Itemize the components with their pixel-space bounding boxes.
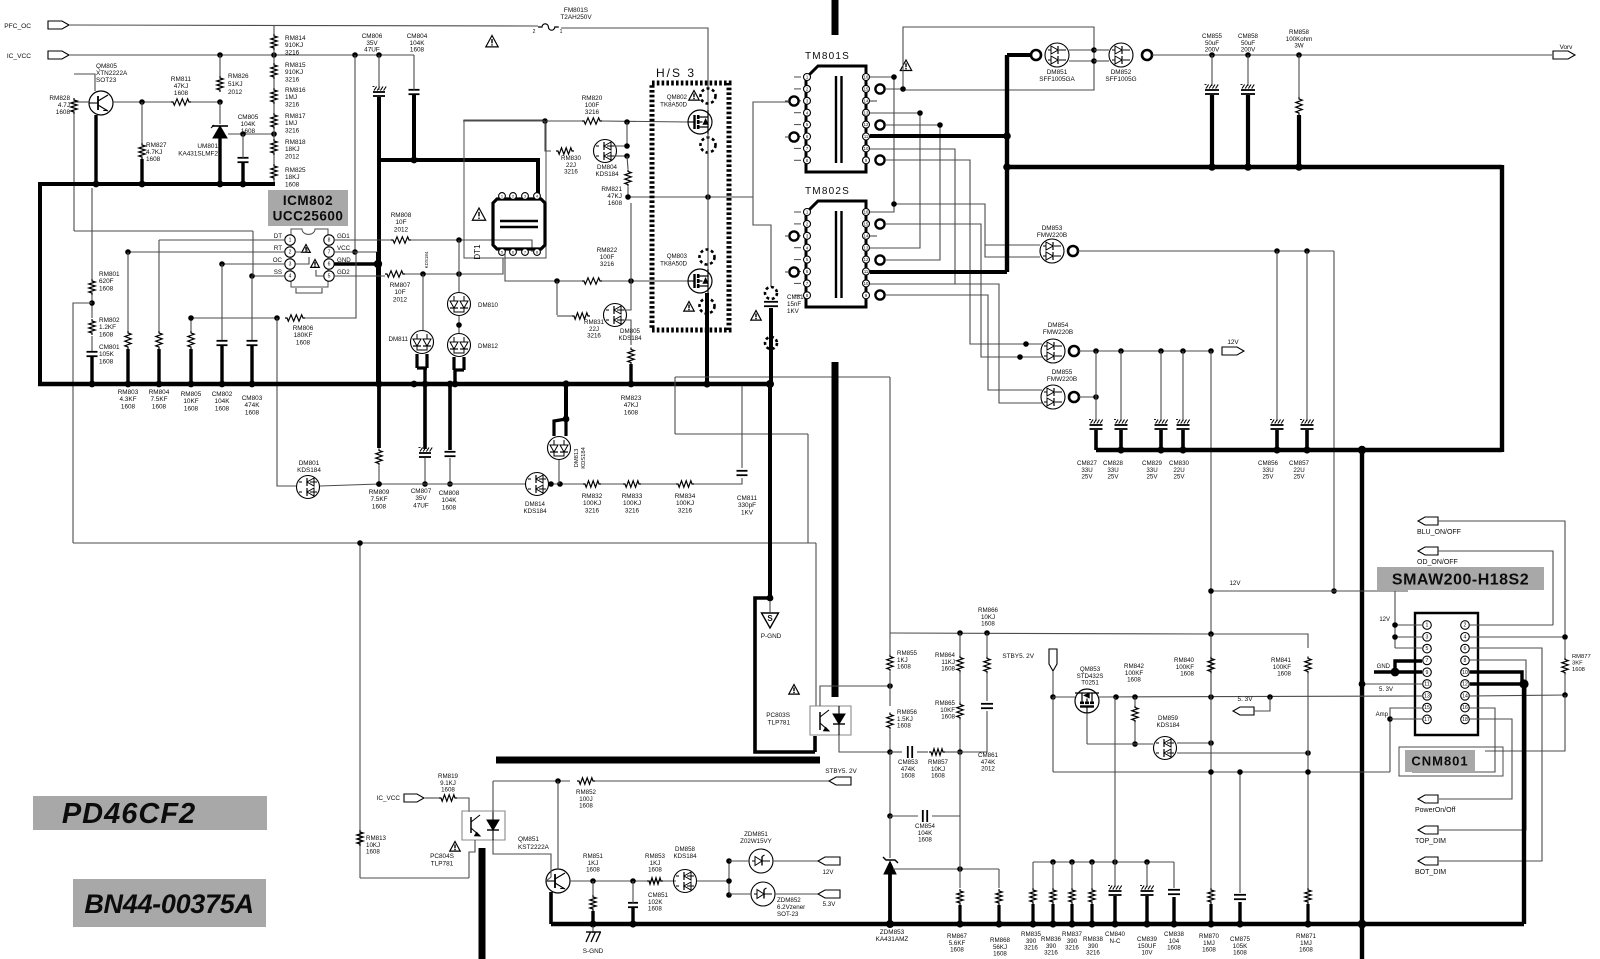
wire DM805 out: [624, 281, 631, 310]
pin CNM801 13: [1423, 692, 1432, 701]
terminal ring DM851 in: [1031, 50, 1041, 60]
thick drop x1362: [1360, 450, 1364, 959]
wire fb drop x890: [889, 377, 891, 633]
wire pin15b to DM854: [885, 224, 1042, 357]
svg-text:KA431SLMF2: KA431SLMF2: [178, 150, 218, 157]
svg-text:FMW220B: FMW220B: [1043, 329, 1073, 336]
pin TM802S 12: [863, 256, 870, 263]
svg-text:3216: 3216: [1044, 950, 1058, 957]
diode DM855: [1041, 385, 1065, 409]
svg-text:1608: 1608: [121, 403, 136, 410]
svg-text:SOT-23: SOT-23: [777, 911, 799, 918]
wire CM851b top: [632, 881, 634, 903]
svg-text:16: 16: [864, 210, 869, 215]
pin CNM801 1: [1423, 621, 1432, 630]
svg-text:8: 8: [328, 238, 331, 244]
svg-text:RM816: RM816: [285, 87, 306, 94]
wire RM832-RM833: [601, 483, 623, 485]
svg-text:10: 10: [864, 281, 869, 286]
wire 12V rail drop x1211: [1210, 351, 1212, 697]
pin 1 DT: [285, 235, 295, 245]
transistor QM805: [89, 91, 113, 115]
svg-text:1608: 1608: [648, 867, 662, 874]
terminal ring TM802S pin6: [789, 267, 798, 276]
svg-text:14: 14: [864, 233, 869, 238]
svg-text:910KJ: 910KJ: [285, 42, 303, 49]
wire cnm pin13 53: [1416, 695, 1423, 697]
svg-text:CM811: CM811: [737, 495, 758, 502]
pin CNM801 16: [1461, 703, 1470, 712]
svg-text:1: 1: [1426, 623, 1429, 629]
svg-text:51KJ: 51KJ: [228, 81, 243, 88]
svg-text:1608: 1608: [1572, 667, 1585, 673]
svg-text:5. 3V: 5. 3V: [1238, 696, 1254, 703]
capacitor CM875: [1239, 772, 1241, 893]
wire RM827: [141, 102, 143, 143]
wire DM854 out rail: [1079, 350, 1211, 352]
node junction x274 y55: [271, 52, 277, 58]
wire CM861 foot: [960, 711, 987, 752]
resistor RM814: [271, 34, 277, 50]
svg-text:3216: 3216: [1086, 950, 1100, 957]
resistor RM832: [583, 481, 601, 487]
svg-text:TM802S: TM802S: [805, 186, 850, 197]
svg-text:DM851: DM851: [1047, 69, 1068, 76]
wire QM802 source to QM803 drain: [707, 134, 709, 269]
svg-text:GD2: GD2: [337, 269, 350, 276]
svg-text:15: 15: [864, 222, 869, 227]
svg-text:25V: 25V: [1081, 474, 1093, 481]
svg-text:T0251: T0251: [1081, 680, 1099, 687]
svg-text:1608: 1608: [56, 109, 71, 116]
capacitor CM858: [1245, 52, 1251, 58]
svg-text:1608: 1608: [950, 947, 964, 954]
wire ZDM853 ref row: [893, 868, 999, 870]
svg-text:200V: 200V: [1241, 47, 1256, 54]
svg-text:8: 8: [1464, 658, 1467, 664]
thick RM838 foot: [1090, 904, 1093, 924]
resistor RM825: [271, 164, 277, 180]
wire SS riser: [252, 231, 254, 276]
wire DM814 out: [549, 483, 583, 485]
capacitor CM855: [1209, 52, 1215, 58]
svg-text:1608: 1608: [648, 906, 662, 913]
resistor RM841: [1305, 657, 1311, 674]
svg-text:CM803: CM803: [242, 395, 263, 402]
wire RM834 to CM811: [694, 478, 742, 484]
svg-text:KST2222A: KST2222A: [518, 844, 550, 851]
diode DM813: [548, 437, 571, 460]
pin CNM801 5: [1423, 644, 1432, 653]
warning triangle QM803: [684, 302, 694, 312]
svg-text:TLP781: TLP781: [431, 860, 454, 867]
resistor RM815: [271, 63, 277, 79]
resistor RM866: [984, 657, 990, 674]
wire QM851 base: [546, 869, 551, 881]
wire RM826 to UM801: [219, 102, 221, 124]
wire pin2 RT net: [128, 251, 285, 253]
wire TM802 pin6 stub: [785, 271, 789, 273]
wire RM840: [1210, 634, 1212, 657]
resistor RM838: [1091, 862, 1093, 888]
wire feedback left: [73, 303, 92, 543]
wire TM801 pin6 stub: [785, 136, 789, 138]
svg-text:3216: 3216: [1065, 945, 1079, 952]
svg-text:200V: 200V: [1205, 47, 1220, 54]
pin TM801S 10: [863, 145, 870, 152]
zener ZDM852: [751, 882, 775, 906]
svg-text:KA431AMZ: KA431AMZ: [876, 936, 909, 943]
svg-text:1608: 1608: [174, 90, 189, 97]
diode DM812: [448, 334, 471, 357]
svg-text:RM806: RM806: [293, 325, 314, 332]
svg-text:1: 1: [560, 29, 563, 35]
pin DT1 top 1: [499, 193, 506, 200]
wire fb bracket x675: [674, 377, 676, 434]
pin 5 GD2: [324, 271, 334, 281]
thick QM851 emitter: [549, 892, 553, 924]
thick RM837 foot: [1070, 904, 1073, 924]
svg-text:3216: 3216: [600, 261, 615, 268]
svg-text:GD1: GD1: [337, 233, 350, 240]
wire RM819 out: [425, 797, 439, 799]
diode DM814: [526, 473, 549, 496]
svg-text:SFF1005GA: SFF1005GA: [1039, 76, 1075, 83]
wire CM802 top: [221, 264, 223, 340]
svg-text:PC803S: PC803S: [766, 712, 790, 719]
svg-text:1608: 1608: [215, 405, 230, 412]
wire DM801 out: [320, 484, 379, 486]
resistor RM835: [1032, 862, 1034, 888]
wire cnm pin17: [1390, 718, 1423, 720]
nc dash TM801S pin14: [870, 100, 877, 102]
pin 3 OC: [285, 259, 295, 269]
wire pin9b to DM855: [885, 295, 1042, 390]
pin TM802S 14: [863, 232, 870, 239]
svg-text:KDS184: KDS184: [297, 467, 321, 474]
pin DT1 bottom 7: [522, 249, 529, 256]
svg-text:1608: 1608: [931, 773, 945, 780]
label box PD46CF2: [33, 796, 267, 830]
svg-text:1608: 1608: [1127, 677, 1141, 684]
resistor RM836: [1052, 862, 1054, 888]
resistor RM833: [623, 481, 641, 487]
net tag BOT_DIM: [1418, 857, 1438, 865]
svg-text:STBY5. 2V: STBY5. 2V: [1002, 653, 1034, 660]
dashed pad CM813 bottom: [765, 337, 777, 349]
svg-text:12: 12: [1462, 682, 1468, 688]
svg-text:KDS184: KDS184: [1156, 722, 1180, 729]
svg-text:RM802: RM802: [99, 317, 120, 324]
node bus dots: [93, 181, 100, 188]
svg-text:3216: 3216: [587, 333, 601, 340]
terminal ring TM802S pin15: [875, 219, 884, 228]
svg-text:3: 3: [289, 262, 292, 268]
svg-text:BN44-00375A: BN44-00375A: [84, 889, 253, 919]
wire RM808 to DT1: [411, 240, 532, 252]
svg-text:CM805: CM805: [238, 114, 259, 121]
wire amp long row y772: [1053, 771, 1390, 773]
svg-text:11: 11: [1424, 682, 1429, 688]
svg-text:47KJ: 47KJ: [624, 402, 639, 409]
resistor RM819: [439, 795, 457, 801]
svg-text:RM822: RM822: [597, 247, 618, 254]
svg-text:12V: 12V: [822, 869, 834, 876]
wire cnm pin4 row: [1470, 636, 1565, 638]
resistor RM852: [577, 778, 595, 784]
svg-text:1608: 1608: [146, 156, 161, 163]
svg-text:1608: 1608: [981, 621, 995, 628]
pin TM802S 15: [863, 220, 870, 227]
shunt reg UM801: [212, 125, 228, 127]
wire cnm pin16: [1412, 708, 1495, 772]
svg-text:5: 5: [328, 274, 331, 280]
svg-text:DM814: DM814: [525, 501, 546, 508]
svg-text:RM826: RM826: [228, 73, 249, 80]
capacitor CM838: [1173, 862, 1175, 888]
svg-text:104K: 104K: [215, 398, 231, 405]
resistor RM820: [582, 118, 602, 124]
wire zener bracket: [728, 861, 730, 895]
svg-text:104K: 104K: [241, 121, 257, 128]
wire pin16 link: [870, 77, 894, 212]
capacitor CM840: [1114, 697, 1116, 887]
svg-text:P-GND: P-GND: [761, 633, 782, 640]
thick DM812 feet: [452, 357, 455, 370]
svg-text:1608: 1608: [285, 181, 300, 188]
svg-text:BLU_ON/OFF: BLU_ON/OFF: [1417, 529, 1461, 536]
wire RM833-RM834: [641, 483, 676, 485]
svg-text:2: 2: [289, 250, 292, 256]
svg-text:XTN2222A: XTN2222A: [96, 70, 128, 77]
wire RM814: [273, 25, 275, 34]
resistor RM856: [887, 713, 893, 730]
resistor RM811: [171, 99, 191, 105]
warning triangle QM802: [689, 91, 699, 101]
svg-text:1608: 1608: [1299, 947, 1313, 954]
wire pin12 link: [885, 125, 940, 260]
warning triangle PC803: [789, 685, 799, 695]
resistor RM801: [89, 279, 95, 295]
svg-text:VCC: VCC: [337, 245, 351, 252]
svg-text:1608: 1608: [624, 409, 639, 416]
svg-text:15: 15: [1424, 705, 1430, 711]
svg-text:13: 13: [1424, 693, 1430, 699]
svg-text:18KJ: 18KJ: [285, 146, 300, 153]
wire base RM811: [113, 101, 171, 103]
svg-text:10F: 10F: [394, 289, 405, 296]
terminal ring DM852 out: [1142, 50, 1152, 60]
resistor RM821: [625, 170, 631, 187]
pin TM801S 12: [863, 121, 870, 128]
wire RM807 to DT1: [405, 258, 503, 274]
thick drop x1524: [1522, 684, 1526, 924]
dashed pad QM803 drain: [700, 250, 715, 265]
capacitor CM856: [1276, 251, 1278, 421]
svg-text:KDS184: KDS184: [523, 508, 547, 515]
terminal ring DM853 out: [1068, 246, 1078, 256]
pin TM802S 4: [804, 244, 811, 251]
net tag TOP_DIM: [1418, 826, 1438, 834]
svg-text:QM803: QM803: [667, 253, 688, 260]
thick wire VCC rail to DT1: [379, 158, 538, 162]
svg-text:TK8A50D: TK8A50D: [660, 101, 687, 108]
wire RM831 left: [557, 315, 572, 317]
wire cnm pin11: [1362, 683, 1423, 685]
thick ZDM853 foot: [888, 874, 892, 924]
svg-text:S-GND: S-GND: [583, 948, 604, 955]
pin TM802S 2: [804, 220, 811, 227]
diode DM853: [1040, 239, 1064, 263]
svg-text:100KJ: 100KJ: [676, 500, 694, 507]
thick rail TM802 pin11: [870, 270, 1007, 274]
wire RM827 emitter stub: [140, 159, 143, 184]
svg-text:1KV: 1KV: [787, 308, 800, 315]
svg-text:OC: OC: [273, 257, 283, 264]
page split bar mid: [832, 362, 839, 697]
pin 2 RT: [285, 247, 295, 257]
svg-text:DM852: DM852: [1111, 69, 1132, 76]
svg-text:100F: 100F: [600, 254, 615, 261]
resistor RM813: [357, 830, 363, 846]
node junction x355 y55: [352, 52, 358, 58]
diode DM854: [1041, 339, 1065, 363]
wire DM801 branch: [277, 318, 296, 486]
resistor RM864: [957, 656, 963, 673]
thick RM803 foot: [126, 349, 129, 384]
dashed pad QM803 source: [700, 299, 715, 314]
svg-text:3W: 3W: [1294, 43, 1303, 50]
diode DM805: [604, 304, 627, 327]
pin TM802S 10: [863, 280, 870, 287]
capacitor CM803: [247, 340, 258, 342]
svg-text:N-C: N-C: [1110, 938, 1122, 945]
wire RM806 net y318: [191, 317, 277, 319]
label box ICM802: [268, 190, 348, 226]
resistor RM822: [582, 278, 602, 284]
resistor RM858: [1296, 52, 1302, 58]
terminal ring TM801S pin9: [875, 155, 884, 164]
thick cap feet 12V bus: [1094, 430, 1098, 450]
svg-text:1608: 1608: [99, 358, 114, 365]
pin TM802S 3: [804, 232, 811, 239]
wire pin3 OC net: [222, 263, 285, 265]
pin TM801S 9: [863, 157, 870, 164]
pin TM801S 16: [863, 74, 870, 81]
svg-text:330pF: 330pF: [738, 502, 756, 509]
svg-text:SOT23: SOT23: [96, 77, 117, 84]
wire cnm pin14 row: [1470, 695, 1565, 696]
svg-text:1608: 1608: [941, 714, 955, 721]
pin TM801S 13: [863, 109, 870, 116]
svg-text:12V: 12V: [1379, 617, 1390, 623]
svg-text:25V: 25V: [1107, 474, 1119, 481]
wire RM804 top: [158, 240, 160, 331]
svg-text:100KJ: 100KJ: [623, 500, 641, 507]
svg-text:UM801: UM801: [197, 143, 218, 150]
label box CNM801: [1399, 747, 1503, 776]
resistor RM831: [572, 313, 590, 319]
svg-text:QM802: QM802: [667, 94, 688, 101]
svg-text:3216: 3216: [585, 109, 600, 116]
thick loop right x1502: [1500, 165, 1504, 452]
terminal ring TM802S pin3: [789, 231, 798, 240]
pin TM801S 15: [863, 85, 870, 92]
wire CM803 top: [251, 276, 253, 340]
svg-text:1608: 1608: [1202, 947, 1216, 954]
wire DM855 out: [1079, 396, 1096, 398]
svg-text:RM823: RM823: [621, 395, 642, 402]
svg-text:1608: 1608: [372, 503, 387, 510]
thick wire cnm GND pins: [1374, 670, 1422, 673]
svg-text:17: 17: [1424, 717, 1430, 723]
pin CNM801 17: [1423, 715, 1432, 724]
capacitor CM808: [448, 384, 452, 450]
wire stby drop x1053: [1052, 697, 1054, 772]
transformer DT1 core: [500, 220, 538, 222]
svg-text:13: 13: [864, 245, 869, 250]
pin CNM801 11: [1423, 680, 1432, 689]
resistor RM808: [391, 237, 411, 243]
svg-text:1KV: 1KV: [741, 509, 754, 516]
pin TM801S 7: [804, 145, 811, 152]
mosfet QM853 horizontal: [1075, 689, 1099, 713]
wire CM805 top: [242, 134, 244, 158]
resistor RM851: [590, 895, 596, 911]
svg-text:KDS184: KDS184: [424, 251, 429, 268]
wire DM859 out2: [1177, 752, 1308, 754]
pin 8 GD1: [324, 235, 334, 245]
pin CNM801 15: [1423, 703, 1432, 712]
capacitor CM839: [1146, 862, 1148, 887]
wire PC803 LED cathode out: [839, 735, 890, 752]
wire RM864: [959, 633, 961, 656]
thick RM804 foot: [157, 349, 160, 384]
svg-text:13: 13: [864, 110, 869, 115]
wire DM852 in: [1094, 49, 1109, 51]
pin DT1 bottom 5: [499, 249, 506, 256]
wire stby net y633: [890, 633, 1211, 634]
diode DM851: [1045, 43, 1069, 67]
wire pin4 SS net: [252, 275, 285, 277]
wire PC804 emitter: [469, 840, 475, 878]
svg-text:1: 1: [289, 238, 292, 244]
thick riser x1007: [1005, 55, 1009, 272]
svg-text:3216: 3216: [285, 76, 300, 83]
pin TM801S 6: [804, 133, 811, 140]
pin CNM801 3: [1423, 633, 1432, 642]
svg-text:7: 7: [328, 250, 331, 256]
wire collector rail: [570, 880, 676, 882]
pin TM802S 6: [804, 268, 811, 275]
svg-text:RM817: RM817: [285, 113, 306, 120]
svg-text:ZDM852: ZDM852: [777, 897, 801, 904]
resistor RM830: [556, 148, 574, 154]
wire QM853 out row: [1099, 696, 1416, 697]
wire ZDM852 left: [729, 893, 751, 895]
page split bar horizontal: [496, 757, 820, 764]
thick CM840 foot: [1113, 896, 1116, 924]
wire RM877 net drop: [1485, 695, 1565, 751]
svg-text:RM815: RM815: [285, 62, 306, 69]
svg-text:1MJ: 1MJ: [285, 120, 297, 127]
svg-text:DT: DT: [274, 233, 282, 240]
thick CM875 foot: [1238, 902, 1241, 924]
svg-text:2012: 2012: [393, 296, 408, 303]
diode DM804: [594, 140, 617, 163]
svg-text:BOT_DIM: BOT_DIM: [1415, 869, 1446, 876]
wire RM805 top: [190, 318, 192, 331]
